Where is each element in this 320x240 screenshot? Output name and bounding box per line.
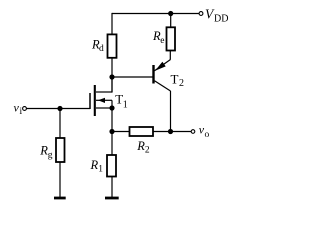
VDD terminal circle <box>199 12 203 16</box>
svg-text:1: 1 <box>98 165 103 175</box>
svg-text:g: g <box>48 150 53 160</box>
wire VDD rail <box>112 13 199 15</box>
wire Re to T2 emitter <box>169 51 171 60</box>
node output junction dot <box>168 129 173 134</box>
wire T2 collector down <box>170 91 172 132</box>
wire vi to gate <box>27 108 91 110</box>
transistor T2 <box>154 60 171 91</box>
svg-text:T: T <box>171 72 179 87</box>
resistor R2 <box>130 127 154 136</box>
wire R2 left <box>112 131 130 133</box>
svg-text:R: R <box>90 158 99 172</box>
svg-text:2: 2 <box>179 78 184 89</box>
output terminal vo <box>191 130 195 134</box>
node T1 source junction dot <box>109 105 114 110</box>
wire output node to terminal <box>171 131 192 133</box>
wire R2 right to output node <box>153 131 171 133</box>
wire Rd to drain node <box>111 58 113 93</box>
ground (R1) <box>105 197 119 200</box>
svg-text:o: o <box>205 130 210 140</box>
node R2/R1 junction dot <box>109 129 114 134</box>
wire Rg to ground <box>59 162 61 197</box>
resistor R1 <box>107 155 116 177</box>
svg-text:d: d <box>99 44 104 54</box>
wire rail to Re <box>170 14 172 28</box>
wire R2 node to R1 <box>111 132 113 156</box>
node drain junction dot <box>109 74 114 79</box>
resistor Rd <box>108 34 117 57</box>
svg-text:1: 1 <box>123 100 128 111</box>
resistor Rg <box>56 138 65 162</box>
node Re junction dot <box>168 11 173 16</box>
transistor T1 MOSFET <box>90 77 112 116</box>
node Rg junction dot <box>57 106 62 111</box>
wire Rg branch <box>59 109 61 139</box>
wire drain to T2 base <box>112 76 153 78</box>
wire R1 to ground <box>111 177 113 198</box>
ground (Rg) <box>54 197 66 200</box>
resistor Re <box>167 27 176 50</box>
wire source down to R2 node <box>111 108 113 132</box>
svg-text:DD: DD <box>214 13 228 24</box>
svg-text:2: 2 <box>145 146 150 156</box>
input terminal vi <box>23 107 27 111</box>
wire rail to Rd <box>111 13 113 35</box>
svg-text:i: i <box>20 107 23 117</box>
svg-text:e: e <box>160 36 164 46</box>
